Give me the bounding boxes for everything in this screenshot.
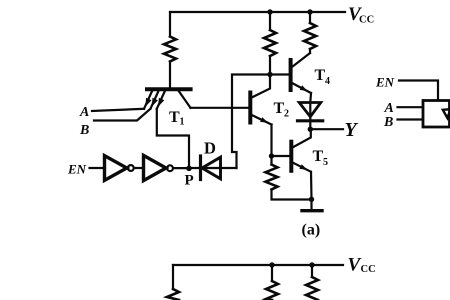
wire input B [94,109,150,121]
svg-text:T: T [169,109,180,126]
wire D2 to Y node [309,121,311,129]
transistor T5 emitter [293,163,311,172]
wire R4 bottom to ground junction [272,190,312,200]
resistor R1 [164,37,176,62]
wire T2 emitter down [270,125,272,157]
transistor T1 emitter 2 [150,91,158,109]
svg-text:V: V [348,255,362,276]
wire T4 emitter to diode D2 [309,93,312,121]
svg-text:(a): (a) [302,222,321,239]
svg-text:P: P [185,173,194,189]
wire R1 top lead [169,12,171,37]
wire R1 to T1 base [169,62,171,89]
transistor T4 emitter [292,83,311,93]
wire junction to T5 base [272,155,290,157]
transistor T1 base bar [147,87,191,91]
svg-text:5: 5 [323,157,328,168]
wire T1 collector to T2 base [191,107,250,109]
node dot T5 base junction [269,153,274,158]
wire R3 top lead [309,12,311,23]
gate symbol: EN wire [399,81,438,101]
wire R2 top lead [269,12,271,30]
node dot bottom rail 1 [269,262,274,267]
resistor R2 [264,30,276,56]
gate symbol B wire [398,118,424,120]
svg-text:A: A [384,101,394,116]
svg-text:EN: EN [67,162,87,177]
svg-text:Y: Y [345,119,359,141]
diode D2 cathode bar [298,119,323,122]
node dot bottom rail 2 [309,262,314,267]
diode D cathode bar [199,156,202,180]
node dot T2 collector junction [267,72,272,77]
ground [310,199,312,208]
inverter G2 [144,155,167,180]
wire P to diode D [189,167,237,169]
diode D triangle [202,157,221,179]
wire bottom middle lead [271,265,273,281]
transistor T5 base bar [289,142,293,171]
wire junction to T4 base [272,73,289,75]
svg-text:2: 2 [284,109,289,120]
node P [186,166,192,172]
gate symbol tri-state triangle [443,109,450,118]
wire R2 to junction [269,56,271,75]
transistor T1 emitter 1 [144,91,152,109]
svg-text:D: D [204,139,216,158]
node dot rail-R2 [267,9,272,14]
bottom figure Vcc rail [173,264,343,266]
wire G1 to G2 [135,167,144,169]
node dot ground junction [309,197,314,202]
svg-text:T: T [313,148,324,165]
resistor R3 [304,23,316,49]
Vcc rail (top) [170,11,345,13]
svg-text:CC: CC [361,264,376,275]
resistor R4 [266,165,278,190]
svg-text:T: T [315,67,326,84]
wire Y to T5 collector [293,129,311,147]
gate symbol A wire [398,106,424,108]
svg-text:T: T [274,100,285,117]
wire input A [92,109,144,111]
wire bottom right lead [311,265,313,277]
svg-text:B: B [79,123,89,138]
wire junction to diode D column [232,75,268,169]
svg-text:CC: CC [359,15,374,26]
wire output Y [310,128,343,130]
node dot rail-R3 [307,9,312,14]
resistor R7 (cut) [306,277,318,300]
transistor T4 base bar [289,60,293,90]
svg-text:EN: EN [375,75,395,90]
wire T5 emitter down [310,172,313,199]
transistor T1 emitter 3 [157,91,165,109]
transistor T2 emitter [252,115,272,125]
transistor T1 collector [178,91,190,108]
inverter G1 [105,156,127,181]
svg-text:4: 4 [325,76,330,87]
diode D2 triangle [299,103,321,117]
wire bottom left column [172,265,174,289]
svg-text:A: A [79,105,89,120]
transistor T2 base bar [248,93,252,123]
gate symbol box [423,101,450,128]
resistor R5 (cut) [167,289,179,300]
transistor T2 collector [252,77,270,98]
wire T1 emitter3 to P [157,109,189,167]
wire R3 to T4 collector [309,49,311,53]
svg-text:B: B [383,115,393,130]
wire R4 top lead [270,156,272,165]
svg-text:1: 1 [180,117,185,128]
wire EN input [90,167,105,169]
node dot Y [308,127,313,132]
wire G2 to P [174,167,190,169]
resistor R6 (cut) [266,281,278,300]
transistor T4 collector [292,53,310,67]
